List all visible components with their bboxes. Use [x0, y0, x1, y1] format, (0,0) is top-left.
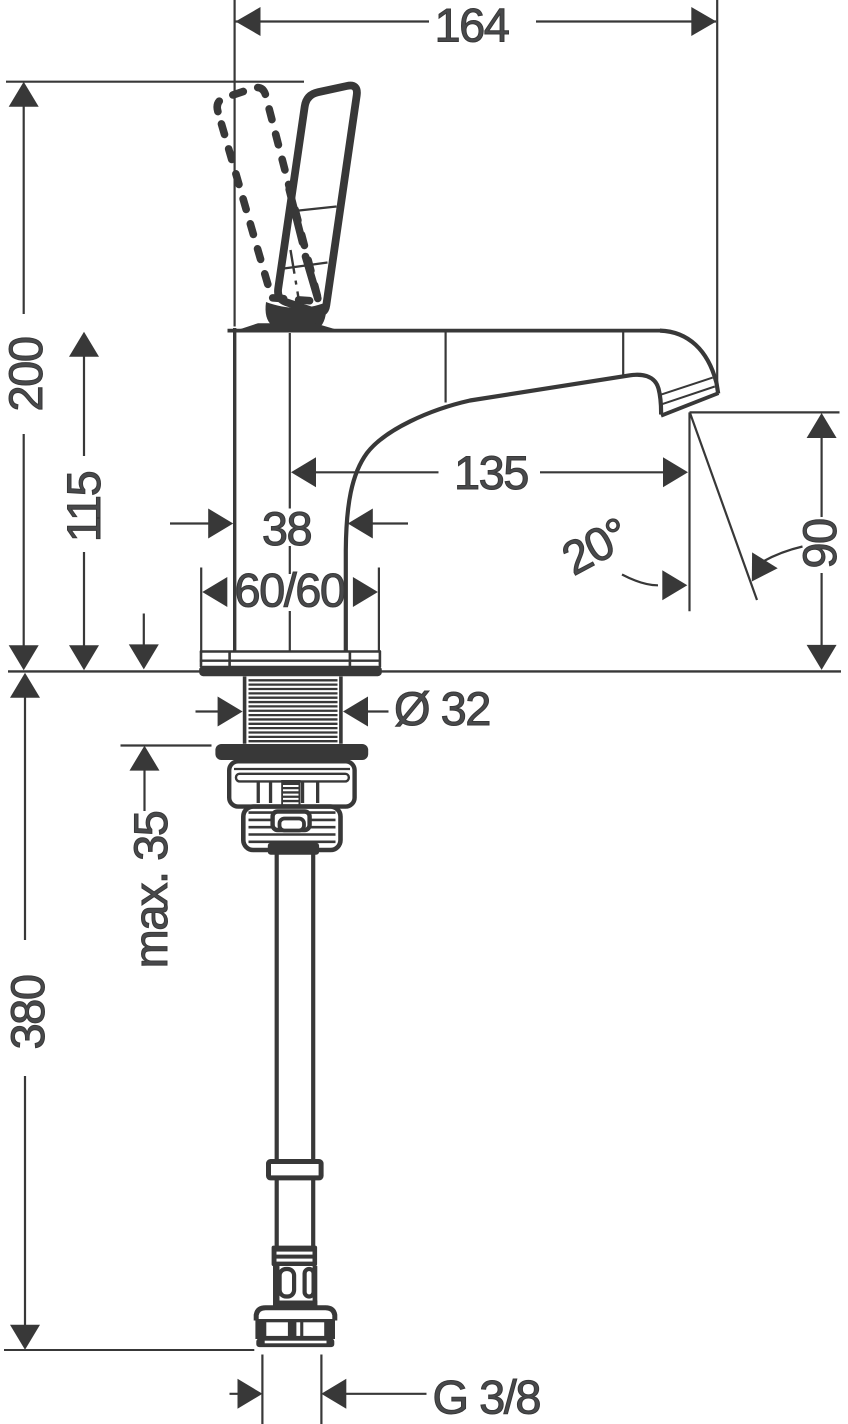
- svg-text:max. 35: max. 35: [124, 811, 177, 968]
- nut flats bars: [257, 783, 320, 804]
- dim 90 line: [820, 436, 822, 646]
- collar thread hatch: [249, 813, 336, 842]
- dim 90 arrows: [807, 413, 837, 438]
- dim max35 lower arrow: [143, 768, 145, 811]
- connector valve body: [273, 1266, 317, 1301]
- centerline of faucet body (dash-dot): [289, 333, 291, 651]
- extension line 164 left (back edge of body): [234, 0, 236, 327]
- G3/8 fitting base: [256, 1339, 334, 1348]
- dim 20 deg leader to diagonal: [763, 547, 803, 562]
- dim 60/60 extension lines: [201, 568, 379, 653]
- reference line top of handle (200): [6, 81, 304, 83]
- base plate chamfer line: [200, 660, 381, 662]
- svg-text:60/60: 60/60: [234, 564, 344, 617]
- dim 135 line: [314, 471, 664, 473]
- base plate bottom band: [199, 666, 382, 676]
- threaded shank left edge: [243, 677, 247, 744]
- handle pivot blob: [266, 302, 327, 326]
- dim 20 deg leader to vertical: [622, 575, 658, 586]
- base plate top line: [200, 650, 381, 653]
- G3/8 fitting shoulder: [256, 1308, 335, 1321]
- dim G38 extension lines: [262, 1355, 321, 1424]
- svg-text:Ø 32: Ø 32: [394, 682, 490, 735]
- svg-text:380: 380: [1, 975, 54, 1049]
- handle dash-dot axis: [291, 250, 303, 319]
- mounting nut body: [229, 761, 354, 806]
- base plate left edge: [200, 651, 203, 667]
- collar bottom step: [268, 843, 319, 855]
- dim 115 arrows: [69, 332, 99, 357]
- body right edge and spout underside: [346, 375, 661, 652]
- open-handle edge dashes crossing closed handle: [289, 190, 318, 299]
- dim 60/60 arrows: [202, 577, 227, 607]
- dim diam32 tails: [196, 710, 389, 712]
- dim 164 line: [236, 20, 717, 22]
- hose coupling box: [273, 812, 310, 831]
- dim 380 line: [24, 696, 26, 1326]
- dim 380 bottom reference line: [4, 1349, 254, 1351]
- supply hose lower walls: [277, 1178, 314, 1246]
- dim 164 arrows: [236, 7, 261, 36]
- svg-text:200: 200: [0, 337, 52, 411]
- dim 200 line: [23, 106, 25, 646]
- dim G38 arrows: [238, 1379, 263, 1409]
- G3/8 fitting hex band: [255, 1319, 335, 1339]
- svg-text:G 3/8: G 3/8: [433, 1371, 541, 1424]
- threaded shank right edge: [339, 677, 343, 744]
- dim 200 arrows: [9, 82, 39, 107]
- valve window left: [280, 1269, 295, 1297]
- supply hose upper left wall: [275, 855, 279, 1163]
- dim 90 reference line: [690, 411, 840, 413]
- dim max35 upper arrow: [143, 614, 145, 647]
- supply hose upper right wall: [311, 855, 315, 1163]
- dim 135 arrows: [291, 457, 316, 487]
- spout part line inner left: [445, 333, 447, 403]
- body left edge: [233, 328, 236, 651]
- washer flange: [215, 744, 368, 760]
- handle lever closed position (solid outline): [278, 86, 357, 313]
- nut groove band: [236, 774, 349, 782]
- crimp ferrule: [272, 1246, 318, 1267]
- nut top inner line: [234, 768, 350, 770]
- extension line 164 right (spout tip): [716, 0, 718, 382]
- dim 38 arrows: [208, 509, 233, 539]
- countertop line: [8, 670, 841, 672]
- svg-text:164: 164: [435, 0, 509, 52]
- aerator ring lines: [659, 378, 715, 405]
- valve window right: [305, 1269, 314, 1297]
- dim G38 tails: [230, 1393, 427, 1395]
- dim 20 deg stream diagonal: [690, 412, 757, 600]
- base plate ticks: [230, 652, 350, 667]
- svg-text:115: 115: [57, 471, 110, 542]
- dim 115 line: [83, 356, 85, 646]
- connector transition band: [273, 1301, 317, 1308]
- dim 38 tails: [170, 522, 408, 524]
- aerator face: [661, 393, 719, 416]
- dim diam32 arrows: [218, 697, 243, 727]
- svg-text:20°: 20°: [553, 507, 637, 585]
- handle interior part line lower: [284, 263, 328, 269]
- svg-text:38: 38: [262, 502, 312, 555]
- handle lever open position (dashed): [217, 88, 319, 302]
- lower collar body: [243, 807, 340, 850]
- body top cap wings: [233, 323, 343, 331]
- spout part line inner right: [622, 333, 624, 378]
- dim 20 deg construction vertical: [688, 412, 690, 611]
- base plate right edge: [379, 651, 382, 667]
- svg-text:90: 90: [793, 519, 846, 569]
- shank thread hatch: [249, 680, 338, 741]
- hose coupling inner: [280, 819, 305, 831]
- dim 380 arrows: [10, 673, 40, 698]
- svg-text:135: 135: [454, 446, 528, 499]
- hose union ring: [269, 1162, 322, 1178]
- handle interior part line upper: [290, 207, 337, 212]
- body top line: [228, 329, 662, 333]
- threaded stud through nut: [281, 780, 300, 813]
- spout outer right curve: [660, 331, 718, 394]
- dim max35 reference line: [121, 744, 212, 746]
